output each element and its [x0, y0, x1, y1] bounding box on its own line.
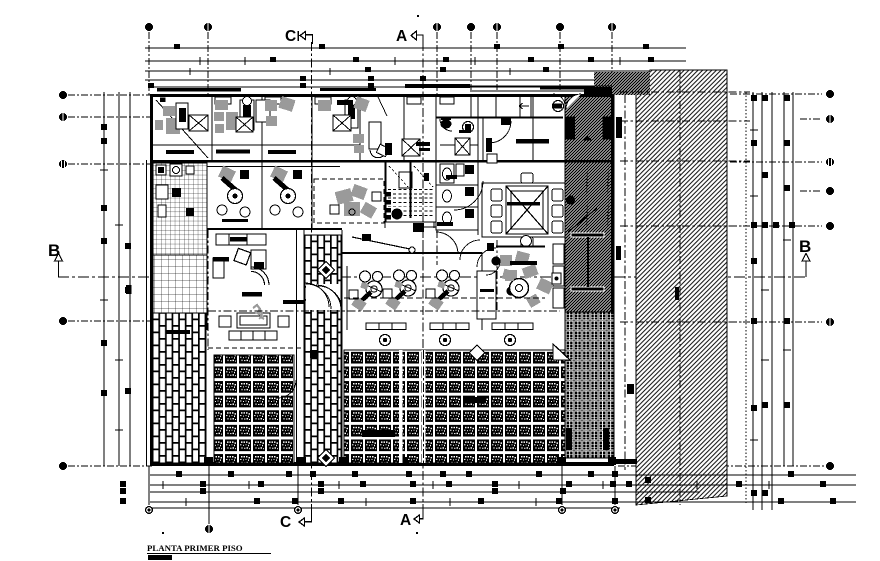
furniture dining chairs [491, 173, 563, 247]
wall outer parallel line left [146, 160, 148, 466]
wall treatment left partition [261, 162, 263, 228]
wall top facade bars [157, 84, 585, 92]
wire section line B [58, 276, 806, 278]
furniture waiting table tilted [234, 248, 251, 265]
hatch region dark band [565, 95, 614, 312]
node left grid bubbles [59, 91, 67, 470]
furniture consult chairs black [330, 192, 381, 215]
furniture office2 xtable [236, 117, 253, 132]
door dining arc [454, 181, 483, 210]
wire bottom grid leaders [149, 466, 615, 524]
node dark band details [566, 162, 608, 291]
wall interior horizontal [150, 160, 614, 254]
furniture office2 chair [214, 100, 238, 133]
room dining outline [482, 183, 565, 237]
wire counter dividers [379, 323, 518, 330]
node patio black tick [627, 384, 634, 394]
furniture office1 desk [166, 150, 194, 154]
furniture dining table [506, 186, 548, 234]
fixture bath bars [437, 175, 457, 226]
wall facade bar mid [320, 88, 376, 91]
furniture lounge bar [516, 139, 549, 144]
wire left dimension lines [104, 92, 130, 466]
furniture consult table set [335, 184, 377, 219]
fixture tiled room mid [156, 185, 194, 217]
furniture reception boom [352, 234, 415, 253]
wire top plus ticks [190, 57, 620, 75]
wire section line C [311, 42, 313, 512]
furniture office1 chair [155, 106, 180, 134]
wire left plus ticks [100, 170, 123, 430]
wall left edge black bar [126, 285, 132, 294]
wall kitchen corridor [436, 96, 563, 160]
room office 1 diagonal wall [156, 100, 208, 158]
furniture treatment console [477, 271, 496, 319]
furniture office2 sidecab [256, 100, 270, 122]
svg-text:B: B [799, 237, 811, 256]
fixture wc toilet [440, 117, 452, 131]
furniture treatment unit3 [426, 270, 460, 311]
node plan title bar [148, 555, 172, 560]
furniture office4 bar [337, 100, 353, 105]
wire treatment dash line [344, 297, 545, 299]
corridor door arcs [436, 94, 565, 260]
floor tiled area [153, 163, 207, 255]
svg-text:C: C [285, 28, 296, 45]
node entry column circle [553, 101, 564, 112]
hatch region top dark patch [594, 72, 650, 95]
wire grid line 208 through plan [207, 230, 209, 350]
wire right plus ticks [750, 130, 791, 440]
furniture office4 unit [345, 97, 358, 129]
furniture waiting sidetables [219, 316, 289, 327]
furniture treatment unit4 [502, 236, 554, 308]
furniture office2 desk [216, 150, 250, 154]
furniture staff chairs [500, 251, 530, 281]
fixture wc sink [459, 122, 474, 134]
room staff right wall cabinets [553, 244, 564, 308]
bathroom fixtures [440, 164, 474, 224]
symbol section B left arrow [55, 254, 63, 278]
furniture treatment unit2 [383, 270, 417, 311]
wire right dotted line [745, 92, 747, 505]
wire corridor dash line [208, 310, 560, 312]
wire section line A [422, 42, 424, 512]
bathroom block [436, 162, 478, 230]
node top dimension ticks [148, 44, 654, 88]
wire right dimension lines [753, 92, 793, 510]
wire plan title underline [147, 553, 271, 555]
node column rings [380, 335, 516, 346]
node hatch dim ticks [645, 477, 651, 503]
furniture office1 xtable [189, 115, 208, 131]
floor stipple courtyard left [214, 355, 294, 463]
node right corridor marks [616, 117, 622, 260]
furniture waiting bar [242, 292, 262, 297]
wire top grid leaders [149, 32, 612, 96]
node corridor black square [310, 350, 318, 358]
hatch region grid column [565, 312, 614, 458]
furniture operatory2 chair [270, 166, 302, 204]
node corridor diamond top [318, 262, 335, 279]
furniture reception counter [216, 234, 266, 245]
floor stipple courtyard right [344, 350, 565, 463]
furniture waiting couch left [213, 257, 229, 278]
wire dim lines over hatch [636, 475, 727, 502]
svg-text:A: A [396, 28, 407, 45]
node bottom extra ticks [254, 471, 618, 504]
node corridor diamond bottom [318, 450, 335, 467]
wire grid line 497 through plan [496, 240, 498, 312]
wall lobby partition [477, 243, 545, 267]
wire bottom plus ticks [163, 481, 769, 506]
floor brick corridor [305, 235, 341, 463]
node courtyard triangle [553, 344, 570, 360]
furniture waiting sofa [237, 305, 270, 328]
wire top dimension lines [145, 48, 686, 87]
wire waiting dashed boundary [208, 347, 304, 349]
wire section A overlay on stair [422, 163, 424, 268]
node right grid bubbles [826, 90, 834, 470]
wall corridor double line [153, 166, 340, 168]
furniture staff blackdot [486, 257, 501, 276]
node dark band slots [566, 94, 612, 141]
wire section channel C through courtyard [296, 230, 298, 463]
furniture waiting armchair [251, 250, 266, 269]
node courtyard diamond [469, 345, 485, 361]
node staff box [552, 273, 561, 284]
fixture tiled room top [156, 164, 194, 176]
door lobby pivot [489, 118, 511, 143]
furniture dining table bar [507, 202, 540, 206]
hatch region patio light [636, 70, 727, 505]
wire left grid leaders [68, 95, 152, 466]
node bottom dimension ticks [120, 471, 836, 504]
node top grid bubbles [145, 23, 616, 31]
furniture office6 xchair [402, 139, 430, 156]
furniture treatment counters [366, 323, 533, 330]
node office1 corner sq [160, 98, 166, 103]
furniture office4 xtable [333, 115, 351, 131]
fixture wc xbox [455, 138, 470, 155]
furniture operatory1 chair [218, 166, 249, 204]
furniture staff dot [507, 287, 516, 296]
node bottom wall footings [204, 457, 616, 465]
furniture operatory1 stools [217, 205, 250, 217]
symbol section A top arrow [411, 31, 423, 44]
stair flight [386, 162, 448, 232]
wall corridor opening white [306, 284, 341, 310]
furniture office5 gear [370, 143, 392, 158]
furniture reception curved desk [251, 267, 269, 285]
furniture office3 graytable [265, 96, 296, 126]
furniture staff bar [510, 261, 537, 265]
wall office5 door diagonal [378, 97, 387, 116]
furniture treatment unit1 [349, 271, 383, 312]
furniture office small cabinets row [215, 97, 454, 104]
wall interior vertical partitions [207, 96, 565, 465]
symbol section B right arrow [802, 254, 810, 278]
furniture operatory2 stools [270, 205, 303, 217]
furniture office3 desk [268, 150, 296, 154]
wire bottom dimension lines [150, 475, 856, 508]
room consult dashed outline [314, 179, 384, 223]
node bottom grid bubbles [145, 506, 619, 533]
wall treatment bay left [346, 266, 348, 330]
node stray dots [162, 15, 419, 534]
furniture office1 unit [176, 103, 188, 129]
wire grid line 437 through plan [436, 230, 438, 265]
furniture office4 chair [318, 100, 364, 153]
node duct shaft [486, 138, 497, 163]
furniture office2 unit [240, 97, 254, 131]
wall building outline [150, 94, 614, 466]
svg-text:A: A [400, 512, 411, 529]
furniture office5 door leaf [369, 122, 381, 149]
svg-text:C: C [280, 514, 291, 531]
node right dimension ticks [751, 95, 795, 496]
wire patio grid dash lines [620, 70, 750, 505]
wire section channel A through courtyard [399, 350, 426, 465]
furniture operatory counters [222, 219, 305, 304]
node patio edge tick [675, 287, 679, 300]
svg-text:PLANTA PRIMER PISO: PLANTA PRIMER PISO [147, 543, 243, 553]
symbol section C top arrow [298, 31, 312, 44]
node grid column bars [566, 428, 609, 450]
wall bottomleft inner bar [166, 330, 190, 334]
node stipple dark bars [362, 397, 486, 437]
symbol entry arrow [519, 103, 529, 109]
wall dark band top bar [584, 87, 612, 94]
wall facade lines right [436, 86, 612, 91]
wire right grid leaders [618, 94, 825, 466]
node left dimension ticks [101, 124, 131, 396]
symbol section A bottom arrow [414, 509, 423, 523]
wall patio bottom bar [613, 459, 637, 464]
floor brick strip left [153, 313, 206, 463]
symbol section C bottom arrow [299, 510, 312, 526]
door arcs bottom rooms [278, 283, 342, 398]
wire office counter line [153, 144, 478, 146]
furniture waiting seatrow [229, 331, 277, 340]
furniture office4 graybox [353, 96, 369, 112]
